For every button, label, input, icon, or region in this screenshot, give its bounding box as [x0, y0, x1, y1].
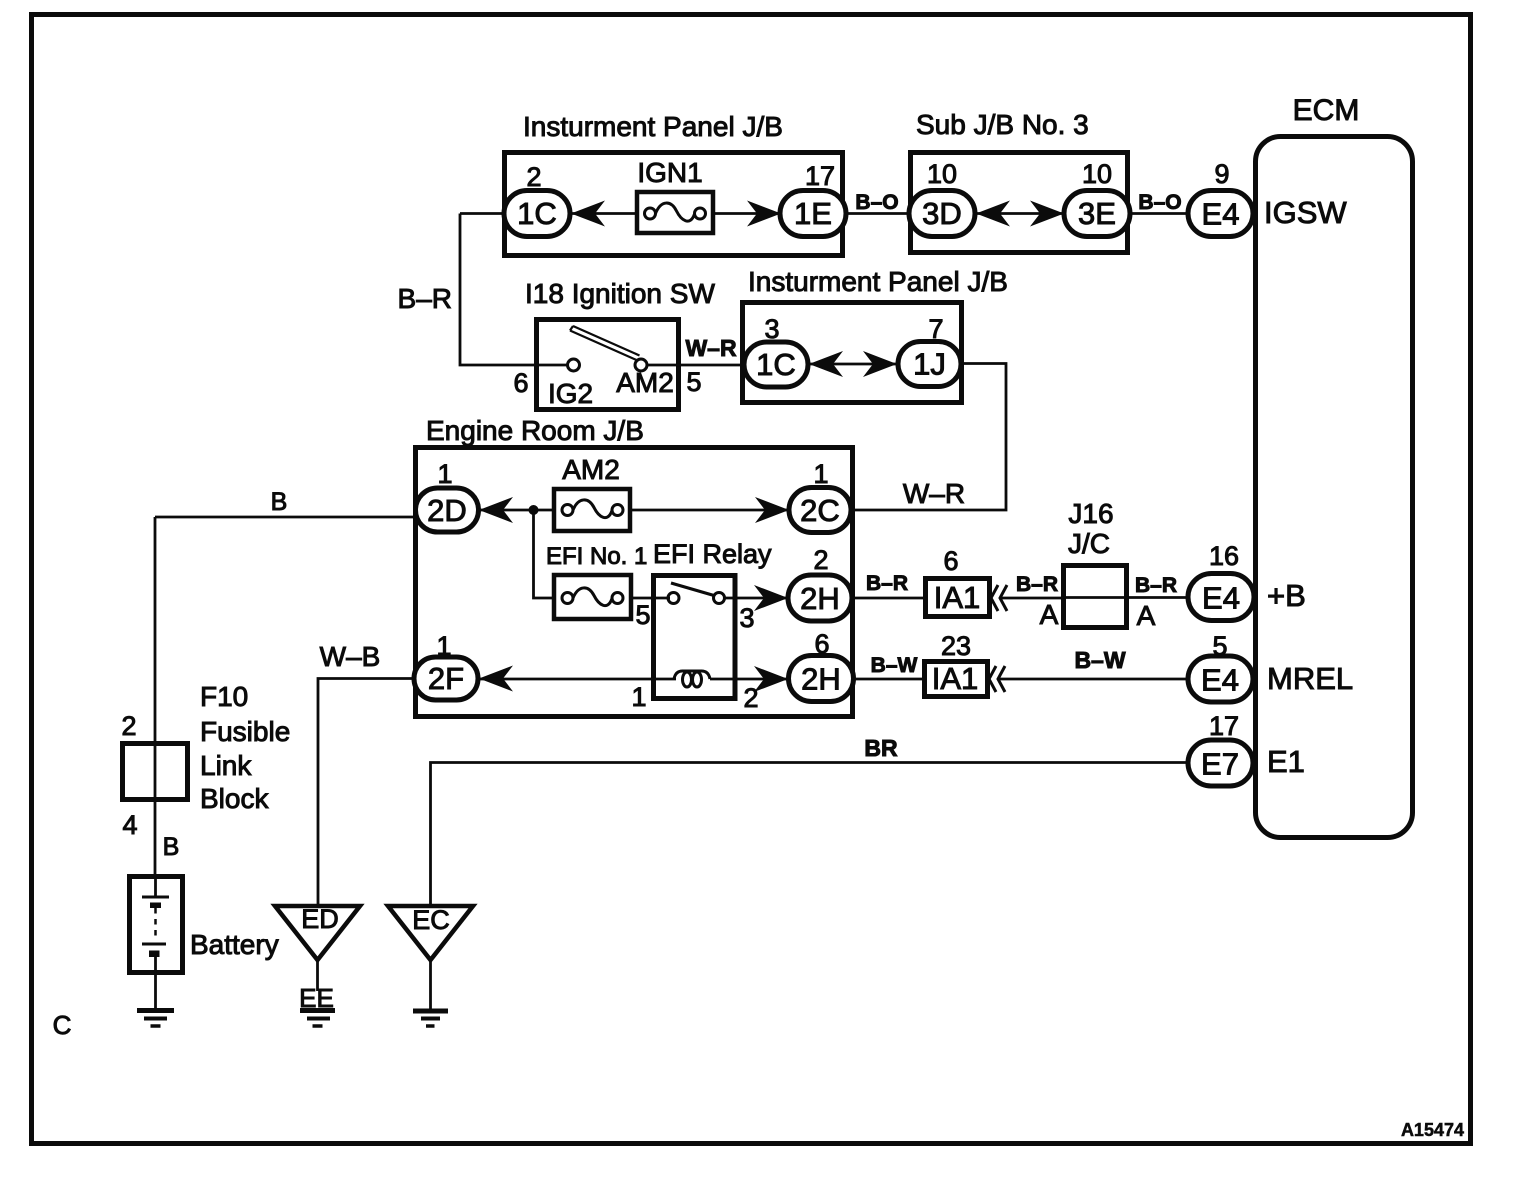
svg-text:C: C	[53, 1010, 72, 1040]
svg-text:B–O: B–O	[1138, 191, 1181, 214]
svg-text:IA1: IA1	[932, 661, 979, 696]
svg-text:W–R: W–R	[685, 335, 737, 361]
ground EC	[413, 1011, 448, 1026]
svg-text:BR: BR	[864, 735, 898, 761]
wire B-R vertical	[460, 214, 536, 366]
svg-text:3D: 3D	[922, 196, 962, 231]
svg-text:Battery: Battery	[190, 929, 279, 960]
svg-text:B–R: B–R	[398, 283, 452, 314]
svg-text:6: 6	[513, 368, 528, 398]
switch lever	[570, 326, 640, 360]
svg-text:1: 1	[436, 631, 451, 661]
svg-text:J16: J16	[1068, 498, 1113, 529]
connector 2D pin 1	[416, 459, 479, 532]
svg-text:I18 Ignition SW: I18 Ignition SW	[525, 278, 715, 309]
wire fuse to 1E	[713, 212, 782, 215]
svg-text:A15474: A15474	[1401, 1120, 1464, 1140]
svg-text:5: 5	[686, 367, 701, 397]
battery	[130, 876, 279, 1011]
wire battery vertical	[154, 517, 157, 876]
wire IA1 to J/C, net B-R	[1001, 597, 1064, 600]
svg-text:Insturment Panel J/B: Insturment Panel J/B	[748, 266, 1008, 297]
wire 3E to E4, net B-O	[1129, 212, 1189, 215]
svg-text:E4: E4	[1201, 663, 1239, 698]
svg-text:2H: 2H	[801, 662, 841, 697]
svg-text:EFI No. 1: EFI No. 1	[546, 543, 647, 570]
svg-text:ED: ED	[301, 904, 339, 934]
connector E4 pin 9 IGSW	[1188, 159, 1347, 237]
svg-text:10: 10	[927, 159, 957, 189]
svg-text:1: 1	[813, 459, 828, 489]
svg-text:EC: EC	[412, 905, 450, 935]
connector IA1 pin 23	[925, 631, 988, 697]
svg-text:Link: Link	[200, 750, 252, 781]
svg-text:B–W: B–W	[871, 654, 918, 677]
wire J/C to E4, net B-R	[1129, 596, 1190, 599]
svg-text:W–B: W–B	[320, 641, 381, 672]
wire fuse AM2 to 2C	[630, 509, 791, 512]
EFI Relay box	[653, 539, 772, 699]
svg-text:1: 1	[631, 682, 646, 712]
wire 1E to 3D, net B-O	[846, 212, 911, 215]
svg-text:2H: 2H	[800, 581, 840, 616]
connector 2F pin 1	[414, 631, 478, 700]
wire 2D to AM2 fuse	[478, 509, 556, 512]
wire EFI fuse to relay	[630, 597, 670, 600]
wire coil to 2H	[710, 678, 790, 681]
connector 3D pin 10	[909, 159, 975, 237]
wire AM2 to 1C, net W-R	[647, 364, 746, 367]
connector 3E pin 10	[1064, 159, 1130, 237]
svg-text:10: 10	[1082, 159, 1112, 189]
svg-text:B: B	[163, 833, 180, 861]
arrow left	[479, 497, 513, 523]
svg-text:ECM: ECM	[1293, 94, 1360, 127]
svg-text:A: A	[1040, 599, 1059, 630]
wire 2H to IA1, net B-R	[853, 597, 925, 600]
svg-text:E1: E1	[1267, 744, 1305, 779]
svg-text:Fusible: Fusible	[200, 716, 290, 747]
svg-text:6: 6	[814, 629, 829, 659]
relay lever	[671, 583, 714, 596]
connector 1J pin 7	[898, 314, 961, 387]
arrow right	[755, 497, 789, 523]
svg-text:A: A	[1137, 600, 1156, 631]
switch contact AM2 pin 5	[635, 359, 647, 371]
arrow right	[747, 201, 781, 227]
svg-text:AM2: AM2	[616, 367, 674, 398]
switch contact IG2 pin 6	[568, 359, 580, 371]
svg-text:B–W: B–W	[1074, 647, 1125, 673]
connector E4 pin 16 +B	[1188, 541, 1306, 621]
svg-text:4: 4	[122, 810, 137, 840]
Engine Room J/B box	[416, 415, 853, 717]
ECM U1	[1256, 94, 1413, 838]
svg-text:1J: 1J	[913, 347, 946, 382]
wire relay to 2H	[724, 597, 790, 600]
svg-text:3: 3	[764, 314, 779, 344]
wire IG2 stub	[536, 364, 567, 367]
wire 1J to 2C, net W-R	[854, 364, 1006, 511]
svg-text:2: 2	[526, 162, 541, 192]
wire 2H to IA1, net B-W	[853, 678, 924, 681]
svg-text:6: 6	[943, 546, 958, 576]
svg-text:E7: E7	[1201, 747, 1239, 782]
fuse IGN1	[637, 157, 713, 233]
fuse AM2	[554, 454, 630, 531]
arrow left	[571, 201, 605, 227]
arrow right	[1030, 201, 1064, 227]
svg-text:IGN1: IGN1	[637, 157, 702, 188]
wire IA1 to E4, net B-W	[999, 678, 1190, 681]
connector 1C pin 2	[504, 162, 570, 237]
svg-text:B–R: B–R	[1016, 573, 1058, 596]
connector E4 pin 5 MREL	[1188, 631, 1353, 702]
svg-text:F10: F10	[200, 681, 248, 712]
arrow left	[976, 201, 1010, 227]
ground battery	[137, 1011, 174, 1027]
ground EE	[300, 1011, 335, 1027]
connector 1C pin 3	[744, 314, 808, 387]
svg-text:IA1: IA1	[934, 580, 981, 615]
svg-text:2D: 2D	[427, 493, 467, 528]
svg-text:2F: 2F	[428, 661, 464, 696]
wire between	[808, 363, 898, 366]
svg-text:7: 7	[928, 314, 943, 344]
svg-text:17: 17	[805, 161, 835, 191]
wire battery B to 2D	[155, 516, 417, 519]
svg-text:5: 5	[635, 600, 650, 630]
svg-text:B–R: B–R	[1135, 574, 1177, 597]
arrow right	[863, 351, 897, 377]
svg-text:1E: 1E	[794, 196, 832, 231]
svg-text:Insturment Panel J/B: Insturment Panel J/B	[523, 111, 783, 142]
svg-text:B–O: B–O	[855, 191, 898, 214]
svg-text:J/C: J/C	[1068, 528, 1110, 559]
relay coil	[674, 671, 710, 687]
svg-text:1C: 1C	[517, 196, 557, 231]
chevrons	[989, 666, 996, 692]
fuse EFI No. 1	[546, 543, 647, 619]
connector 2H pin 6	[789, 629, 854, 702]
svg-text:2: 2	[743, 683, 758, 713]
I18 Ignition SW	[525, 278, 715, 410]
svg-text:Block: Block	[200, 783, 269, 814]
arrow left	[479, 666, 513, 692]
Sub J/B No. 3 box	[911, 109, 1128, 253]
wire 3D to 3E	[974, 212, 1066, 215]
svg-text:1: 1	[437, 459, 452, 489]
wire 2F to relay coil	[478, 678, 676, 681]
chevrons	[991, 585, 998, 611]
svg-text:3: 3	[739, 603, 754, 633]
svg-text:5: 5	[1212, 631, 1227, 661]
svg-text:23: 23	[941, 631, 971, 661]
svg-text:2: 2	[121, 711, 136, 741]
wire junction down to EFI fuse	[534, 510, 557, 598]
ground triangle EC	[388, 905, 473, 1011]
svg-text:1C: 1C	[756, 347, 796, 382]
connector IA1 pin 6	[926, 546, 990, 617]
wire ign1 row	[460, 212, 506, 215]
svg-text:AM2: AM2	[562, 454, 620, 485]
junction dot	[529, 505, 539, 515]
Insturment Panel J/B box 1	[505, 111, 843, 256]
Insturment Panel J/B box 2	[743, 266, 1008, 403]
relay contact pins 5,3	[668, 593, 679, 604]
svg-text:17: 17	[1209, 711, 1239, 741]
svg-text:9: 9	[1214, 159, 1229, 189]
svg-text:W–R: W–R	[903, 478, 965, 509]
svg-text:Sub J/B No. 3: Sub J/B No. 3	[916, 109, 1089, 140]
svg-text:E4: E4	[1202, 197, 1240, 232]
arrow left	[809, 351, 843, 377]
ground triangle ED	[275, 904, 360, 1013]
svg-text:3E: 3E	[1078, 196, 1116, 231]
svg-text:16: 16	[1209, 541, 1239, 571]
svg-text:+B: +B	[1267, 578, 1306, 613]
svg-text:2C: 2C	[800, 493, 840, 528]
connector 2C pin 1	[789, 459, 851, 533]
svg-text:Engine Room J/B: Engine Room J/B	[426, 415, 644, 446]
wire W-B from 2F to ED	[318, 679, 416, 907]
svg-text:IG2: IG2	[548, 378, 593, 409]
svg-text:B–R: B–R	[866, 572, 908, 595]
wire 1C to fuse	[570, 212, 637, 215]
svg-text:E4: E4	[1202, 581, 1240, 616]
svg-text:B: B	[271, 488, 288, 516]
arrow right	[754, 585, 788, 611]
connector 2H pin 2	[788, 545, 852, 621]
F10 Fusible Link Block	[123, 681, 291, 814]
arrow right	[754, 666, 788, 692]
junction J16 J/C	[1040, 498, 1156, 631]
svg-text:MREL: MREL	[1267, 661, 1353, 696]
connector E7 pin 17 E1	[1188, 711, 1305, 786]
wire EC to E7, net BR	[431, 763, 1191, 907]
svg-text:2: 2	[813, 545, 828, 575]
svg-text:IGSW: IGSW	[1264, 195, 1347, 230]
svg-text:EFI Relay: EFI Relay	[653, 539, 772, 569]
connector 1E pin 17	[780, 161, 846, 237]
